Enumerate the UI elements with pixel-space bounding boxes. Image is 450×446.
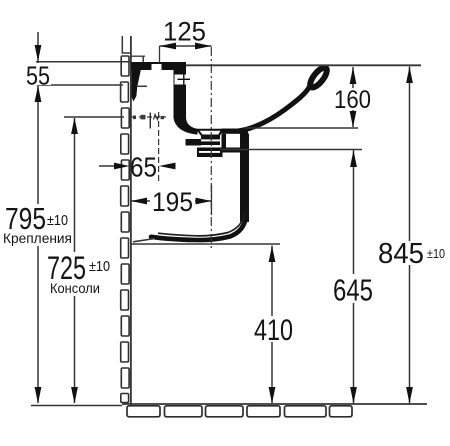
arrow 160 up [350,67,357,84]
svg-text:±10: ±10 [89,258,110,275]
svg-text:±10: ±10 [47,212,68,229]
top edge line [186,64,421,66]
svg-text:Консоли: Консоли [50,280,100,296]
overflow arm [186,139,202,146]
arrow 125 left [160,43,177,50]
svg-text:65: 65 [130,152,157,183]
arrow 725 up [71,118,78,134]
svg-text:410: 410 [254,314,293,347]
ext line bowl bottom (160) [245,127,358,129]
floor line [122,403,427,405]
ext line console level [64,116,124,118]
arrow 160 down [350,111,357,127]
mounting centerline [158,112,160,183]
ext line top of rim (55 top) [36,61,131,63]
dim line 645 [353,150,355,403]
svg-text:160: 160 [334,86,371,114]
basin bottom ledge [222,129,249,134]
overflow window [175,75,187,85]
rolled rim loop [307,65,329,90]
wall bricks [121,56,130,403]
pedestal bottom inner contour [158,214,245,236]
dim 65 arrows [99,165,116,167]
pedestal hook bar [223,148,241,153]
basin top rim bar [131,62,186,70]
drain flange [198,130,223,136]
ground line left of wall [31,405,122,407]
ext line mounting level [39,84,123,86]
svg-text:195: 195 [152,187,193,217]
wall top channel [121,36,123,54]
drain locknut [197,148,223,158]
tap hole cross [178,78,191,80]
dim line 125 [160,45,212,47]
arrow 645 down [350,387,357,404]
ext 125 left [159,46,161,63]
arrow 55 down [35,45,42,61]
arrow 795 down [35,387,42,404]
label 55 [25,63,51,85]
dim line 410 [271,246,273,404]
arrow 795 up [35,86,42,102]
svg-text:Крепления: Крепления [3,230,72,246]
anchor cross [149,113,151,129]
dim line 725 [74,118,76,403]
label 725 ±10 [45,252,112,296]
backsplash wedge at wall [132,70,141,102]
bracket top ledge [131,55,145,57]
svg-text:±10: ±10 [427,246,445,261]
arrow 645 up [350,150,357,167]
hidden mounting line [131,116,166,118]
label 195 [150,189,195,213]
rim bar slot [152,64,162,70]
arrow 410 down [269,387,276,404]
bowl outer curve [238,87,310,132]
drain tailpiece stripes [201,136,220,140]
anchor scribbles [133,116,136,120]
svg-text:125: 125 [163,17,206,47]
arrow 195 right [196,198,212,205]
pedestal bottom curve [151,217,246,240]
arrow 845 down [406,387,413,404]
arrow 410 up [269,246,276,262]
drain centerline [210,47,212,251]
floor tiles [127,406,352,417]
svg-text:645: 645 [333,273,373,308]
ext 195 right [211,185,213,215]
arrow 125 right [195,43,212,50]
svg-text:845: 845 [378,238,424,270]
ext line pedestal bottom (410) [131,243,280,245]
label 410 [252,316,295,342]
label 645 [331,274,375,303]
arrow 845 up [406,67,413,83]
label 845 ±10 [375,241,449,265]
dim line 195 [131,200,212,202]
label 65 [132,154,158,178]
dim line 55/795 [37,32,39,61]
mounting tick [138,85,148,87]
bracket stub on top [142,56,144,63]
dim line 845 [409,67,411,404]
label 160 [332,88,373,110]
arrow 725 down [71,387,78,404]
ext line drain bottom (645) [220,149,362,151]
pedestal front panel [240,134,249,223]
svg-text:55: 55 [26,60,50,90]
label 795 ±10 [2,204,72,246]
wall surface line [130,36,132,405]
dim line 160 [352,67,354,127]
dim line 795 [37,62,39,403]
pedestal bottom rear line [133,239,155,242]
arrow 195 left [131,198,147,205]
basin back wall [174,69,198,135]
